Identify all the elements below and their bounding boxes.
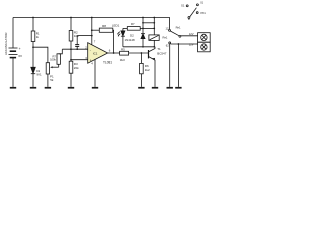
svg-text:6V: 6V [18,54,22,58]
svg-text:7: 7 [94,39,96,43]
svg-text:1k: 1k [36,35,40,39]
svg-text:12V: 12V [189,32,194,36]
svg-text:5k: 5k [50,78,54,82]
svg-text:9V1: 9V1 [36,73,42,77]
svg-text:R5: R5 [121,48,125,52]
svg-text:20k: 20k [74,66,79,70]
svg-text:Re1: Re1 [163,36,168,40]
svg-text:PK1: PK1 [201,11,207,15]
svg-text:100k: 100k [50,57,56,61]
svg-text:Re1: Re1 [176,26,181,30]
svg-text:AKKUMULATOR: AKKUMULATOR [4,33,8,56]
svg-text:3k3: 3k3 [120,58,125,62]
svg-text:2: 2 [85,45,87,49]
svg-text:6: 6 [109,48,111,52]
svg-text:R7: R7 [131,22,135,26]
svg-text:R8: R8 [102,24,106,28]
svg-text:+: + [19,47,21,51]
svg-text:LED1: LED1 [112,24,120,28]
svg-text:TL081: TL081 [103,61,112,65]
svg-text:-: - [90,48,91,52]
svg-text:IC1: IC1 [93,52,98,56]
svg-text:10k: 10k [74,34,79,38]
svg-text:1N4148: 1N4148 [125,38,136,42]
svg-text:S1: S1 [181,4,185,8]
svg-text:D2: D2 [130,33,134,37]
svg-text:BC547: BC547 [157,51,167,55]
svg-text:4: 4 [91,62,93,66]
svg-text:62: 62 [166,44,169,48]
svg-text:1k2: 1k2 [145,68,150,72]
svg-text:01: 01 [200,0,203,4]
svg-text:12V: 12V [189,43,194,47]
